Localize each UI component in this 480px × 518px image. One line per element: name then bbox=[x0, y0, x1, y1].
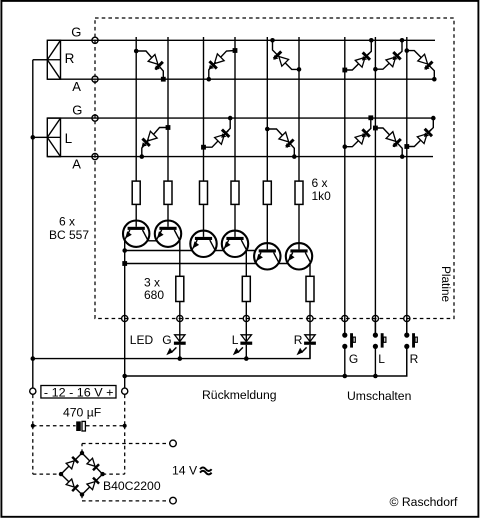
wire base column 2 bbox=[167, 37, 169, 181]
wire link T1-T2 bbox=[148, 240, 156, 242]
svg-text:6 x: 6 x bbox=[59, 214, 75, 228]
LED D5 (column G to G1) bbox=[342, 38, 373, 72]
svg-text:680: 680 bbox=[144, 288, 164, 302]
bridge rectifier B40C2200 bbox=[59, 451, 105, 497]
svg-text:G: G bbox=[162, 333, 171, 347]
turnout drive L bbox=[33, 118, 73, 157]
turnout drive R bbox=[33, 40, 75, 79]
junction cap line right bbox=[123, 424, 127, 428]
wire 680-3 to terminal bbox=[309, 302, 311, 319]
wire base lead T2 bbox=[167, 204, 169, 228]
junction button G / bus bbox=[343, 374, 348, 379]
terminal switch G on board edge bbox=[342, 315, 348, 321]
transistor T3 BC557 bbox=[190, 230, 216, 257]
svg-text:14 V: 14 V bbox=[172, 464, 198, 478]
svg-text:BC 557: BC 557 bbox=[49, 228, 89, 242]
junction LED G / bus bbox=[178, 356, 183, 361]
junction left rail / turnout L bbox=[31, 135, 36, 140]
label 3x 680 bbox=[144, 275, 164, 302]
LED R (feedback) bbox=[297, 319, 316, 359]
LED D6 (column L to G1) bbox=[373, 38, 404, 71]
wire (dashed) plus terminal down bbox=[124, 395, 126, 426]
svg-text:R: R bbox=[65, 51, 75, 66]
LED E3 (column5 to A2) bbox=[265, 127, 297, 159]
wire emitter rail bbox=[124, 241, 126, 319]
terminal LED R on board edge bbox=[307, 315, 313, 321]
resistor R6 1k0 bbox=[295, 181, 303, 204]
terminal G2 on board edge bbox=[92, 115, 98, 121]
svg-text:L: L bbox=[232, 333, 239, 347]
wire (dashed) minus to bridge left bbox=[33, 473, 61, 475]
svg-text:6 x: 6 x bbox=[312, 176, 328, 190]
svg-text:Platine: Platine bbox=[439, 266, 453, 303]
LED E5 (column L to A2) bbox=[373, 126, 405, 159]
LED D2 (column4 to A1) bbox=[207, 48, 238, 81]
transistor T2 BC557 bbox=[155, 220, 181, 247]
junction left rail / LED bus bbox=[31, 356, 36, 361]
wire 680-1 to terminal bbox=[179, 302, 181, 319]
wire base lead T3 bbox=[203, 204, 205, 238]
wire (dashed) plus down to bridge bbox=[124, 426, 126, 474]
terminal supply plus bbox=[122, 388, 128, 394]
wire switch column G bbox=[344, 37, 346, 319]
wire rail to supply terminal bbox=[124, 319, 126, 388]
wire (dashed) plus to bridge right bbox=[103, 473, 125, 475]
pushbutton L bbox=[373, 319, 386, 377]
wire (dashed) cap line left bbox=[33, 425, 76, 427]
junction LED L / bus bbox=[244, 356, 249, 361]
resistor R2 1k0 bbox=[164, 181, 172, 204]
pushbutton G bbox=[342, 319, 355, 377]
transistor T1 BC557 bbox=[123, 220, 149, 247]
wire switch column L bbox=[374, 37, 376, 319]
svg-text:A: A bbox=[72, 157, 81, 172]
wire base lead T6 bbox=[298, 204, 300, 250]
svg-text:Umschalten: Umschalten bbox=[347, 389, 411, 403]
terminal switch R on board edge bbox=[404, 315, 410, 321]
terminal AC2 bbox=[170, 497, 177, 504]
wire left rail (common) bbox=[32, 60, 34, 388]
label 6x BC557 bbox=[49, 214, 89, 242]
resistor R1 1k0 bbox=[132, 181, 140, 204]
wire G2 (turnout L, G line) bbox=[47, 117, 433, 119]
wire (dashed) minus down to bridge bbox=[32, 426, 34, 474]
LED G (feedback) bbox=[166, 319, 185, 359]
junction button L / bus bbox=[373, 374, 378, 379]
wire base column 1 bbox=[135, 37, 137, 181]
wire collector T6 drop bbox=[309, 264, 311, 277]
Platine board outline (dashed) bbox=[95, 18, 454, 319]
wire (dashed) cap line right bbox=[86, 425, 125, 427]
terminal G1 on board edge bbox=[92, 37, 98, 43]
wire collector T2 drop bbox=[179, 241, 181, 276]
terminal supply minus bbox=[30, 388, 36, 394]
label 14V AC bbox=[172, 464, 212, 478]
wire (dashed) AC2 from bridge bottom bbox=[82, 495, 170, 501]
svg-text:R: R bbox=[294, 333, 303, 347]
wire (dashed) minus terminal down bbox=[32, 395, 34, 426]
terminal switch L on board edge bbox=[372, 315, 378, 321]
wire base lead T1 bbox=[135, 204, 137, 228]
wire bus 2 (lower emitter bus) bbox=[125, 263, 288, 265]
svg-text:Rückmeldung: Rückmeldung bbox=[202, 388, 277, 402]
resistor R11 680 bbox=[176, 276, 184, 301]
terminal A1 on board edge bbox=[92, 76, 98, 82]
resistor R4 1k0 bbox=[231, 181, 239, 204]
svg-text:B40C2200: B40C2200 bbox=[103, 479, 161, 493]
wire switch column L lower bbox=[374, 319, 376, 336]
supply voltage box bbox=[41, 386, 116, 399]
svg-text:A: A bbox=[72, 79, 81, 94]
wire 680-2 to terminal bbox=[245, 302, 247, 319]
wire switch column R lower bbox=[406, 319, 408, 336]
wire base lead T5 bbox=[266, 204, 268, 250]
terminal A2 on board edge bbox=[92, 154, 98, 160]
svg-text:L: L bbox=[378, 352, 385, 366]
transistor T5 BC557 bbox=[254, 243, 280, 270]
terminal LED G on board edge bbox=[177, 315, 183, 321]
resistor R13 680 bbox=[306, 276, 314, 301]
wire base column 5 bbox=[266, 37, 268, 181]
wire bus 1 (upper emitter bus) bbox=[125, 250, 256, 252]
LED D1 (column1 to A1) bbox=[134, 49, 166, 82]
LED D4 (column R to A1) bbox=[405, 48, 437, 81]
svg-text:© Raschdorf: © Raschdorf bbox=[390, 495, 459, 509]
svg-text:470 µF: 470 µF bbox=[63, 405, 101, 419]
junction rail/bus2 bbox=[122, 261, 127, 266]
pushbutton R bbox=[404, 319, 417, 377]
terminal LED L on board edge bbox=[243, 315, 249, 321]
wire button bus bbox=[125, 346, 407, 376]
junction rail/bus1 bbox=[122, 248, 127, 253]
LED E4 (column G to G2) bbox=[343, 115, 374, 149]
wire base column 4 bbox=[234, 37, 236, 181]
svg-text:R: R bbox=[410, 352, 419, 366]
LED E1 (column2 to A2) bbox=[140, 125, 171, 159]
wire A2 (turnout L, A line) bbox=[47, 156, 433, 158]
svg-text:1k0: 1k0 bbox=[312, 189, 332, 203]
wire (dashed) AC1 from bridge top bbox=[82, 444, 170, 454]
transistor T6 BC557 bbox=[286, 243, 312, 270]
svg-text:G: G bbox=[71, 25, 81, 40]
svg-text:- 12 - 16 V +: - 12 - 16 V + bbox=[44, 385, 114, 399]
svg-text:LED: LED bbox=[130, 333, 154, 347]
wire switch column G lower bbox=[344, 319, 346, 336]
wire A1 (turnout R, A line) bbox=[47, 78, 434, 80]
terminal rail on board edge bbox=[122, 315, 128, 321]
wire G1 (turnout R, G line) bbox=[47, 39, 435, 41]
resistor R5 1k0 bbox=[263, 181, 271, 204]
wire LED bus bbox=[33, 345, 310, 358]
resistor R3 1k0 bbox=[200, 181, 208, 204]
svg-text:G: G bbox=[349, 352, 358, 366]
junction rail / button bus bbox=[122, 374, 127, 379]
LED E2 (column3 to G2) bbox=[201, 116, 232, 150]
LED L (feedback) bbox=[233, 319, 252, 359]
wire base lead T4 bbox=[234, 204, 236, 238]
terminal AC1 bbox=[170, 440, 177, 447]
transistor T4 BC557 bbox=[222, 230, 248, 257]
junction cap line left bbox=[31, 424, 35, 428]
wire base column 3 bbox=[203, 37, 205, 181]
LED E6 (column R to G2) bbox=[404, 116, 435, 149]
wire base column 6 bbox=[298, 37, 300, 181]
wire switch column R bbox=[406, 37, 408, 319]
capacitor C1 470uF bbox=[76, 421, 85, 431]
svg-text:L: L bbox=[65, 131, 73, 146]
svg-text:G: G bbox=[72, 102, 82, 117]
LED D3 (column6 to G1) bbox=[270, 38, 301, 72]
wire collector T4 drop bbox=[245, 251, 247, 276]
resistor R12 680 bbox=[242, 276, 250, 301]
label 6x 1k0 bbox=[312, 176, 332, 203]
